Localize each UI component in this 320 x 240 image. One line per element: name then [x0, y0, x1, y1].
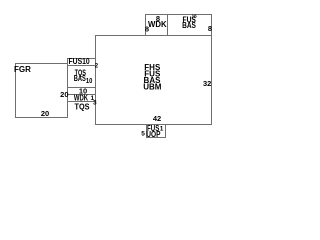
svg-text:BAS: BAS: [182, 21, 196, 30]
FUS bump-out box: [68, 59, 96, 66]
main building outline BAS: [96, 36, 212, 125]
bottom porch box FUS/UOP: [147, 125, 166, 138]
svg-text:WDK: WDK: [74, 93, 88, 102]
left column vertical wall: [67, 102, 69, 118]
svg-text:3: 3: [93, 100, 97, 107]
TQS/BAS box: [68, 66, 96, 88]
svg-text:FUS10: FUS10: [69, 57, 91, 66]
svg-text:UOP: UOP: [146, 130, 161, 139]
svg-text:20: 20: [41, 109, 49, 118]
svg-text:20: 20: [60, 90, 68, 99]
svg-text:FGR: FGR: [14, 65, 31, 74]
svg-text:42: 42: [153, 114, 161, 123]
svg-text:5: 5: [141, 130, 145, 137]
svg-text:8: 8: [145, 24, 149, 33]
svg-text:TQS: TQS: [75, 102, 91, 111]
svg-text:2: 2: [95, 63, 99, 69]
svg-text:WDK: WDK: [148, 20, 167, 29]
top addition box WDK/FUS-BAS: [146, 15, 212, 36]
WDK small box: [68, 95, 96, 102]
svg-text:UBM: UBM: [143, 83, 162, 92]
svg-text:8: 8: [208, 24, 212, 33]
svg-text:32: 32: [203, 79, 211, 88]
svg-text:BAS: BAS: [74, 74, 86, 83]
divider between WDK and FUS-BAS cells: [167, 15, 169, 36]
garage FGR box: [16, 64, 68, 118]
svg-text:10: 10: [86, 76, 93, 85]
